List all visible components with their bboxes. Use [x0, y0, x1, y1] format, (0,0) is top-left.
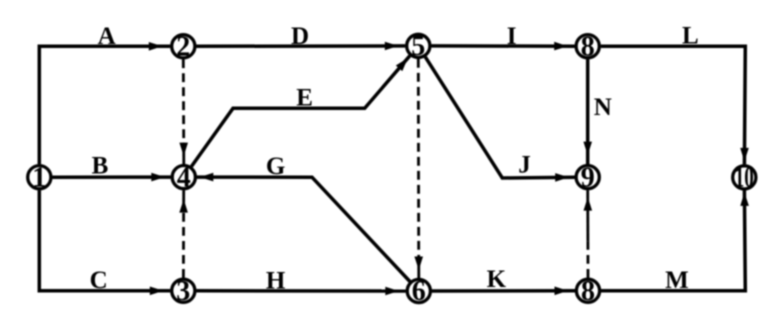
label E — [296, 85, 313, 112]
edge C (1 to 3) — [39, 190, 170, 295]
svg-text:8: 8 — [581, 276, 595, 307]
label L — [682, 22, 699, 49]
node 9 — [576, 162, 599, 193]
svg-text:B: B — [92, 152, 109, 179]
node 8 bottom — [576, 276, 599, 307]
svg-text:4: 4 — [177, 162, 191, 193]
node 6 — [407, 276, 430, 307]
node 4 — [172, 162, 195, 193]
svg-text:2: 2 — [176, 32, 190, 63]
label H — [266, 267, 286, 294]
dummy dashed edge 8 bottom to 9 — [584, 190, 593, 278]
svg-text:I: I — [507, 23, 517, 50]
svg-text:10: 10 — [735, 163, 754, 194]
svg-text:5: 5 — [411, 31, 425, 62]
edge I (5 to 8 top) — [431, 42, 574, 51]
label J — [518, 152, 531, 179]
svg-text:C: C — [90, 267, 108, 294]
edge J (5 to 9) — [425, 57, 574, 182]
dummy dashed edge 2 to 4 — [179, 59, 188, 164]
svg-text:G: G — [266, 153, 285, 180]
label K — [487, 266, 507, 293]
svg-text:3: 3 — [176, 276, 190, 307]
edge H (3 to 6) — [196, 287, 405, 296]
svg-text:J: J — [518, 152, 531, 179]
label G — [266, 153, 285, 180]
edge K (6 to 8 bottom) — [432, 287, 575, 296]
edge A (1 to 2) — [39, 42, 170, 164]
edge L (8 top to 10) — [601, 46, 749, 164]
edge N (8 top to 9) — [583, 59, 592, 164]
svg-text:H: H — [266, 267, 286, 294]
node 8 top — [576, 31, 599, 62]
svg-text:6: 6 — [412, 276, 426, 307]
edge G (6 to 4) — [197, 173, 410, 282]
svg-text:L: L — [682, 22, 699, 49]
svg-text:D: D — [291, 23, 309, 50]
svg-text:A: A — [98, 23, 116, 50]
label A — [98, 23, 116, 50]
dummy dashed edge 3 to 4 — [179, 190, 188, 278]
label I — [507, 23, 517, 50]
svg-text:K: K — [487, 266, 507, 293]
label D — [291, 23, 309, 50]
svg-text:1: 1 — [32, 162, 46, 193]
edge E (4 to 5) — [191, 56, 409, 167]
svg-text:8: 8 — [581, 31, 595, 62]
dummy dashed edge 5 to 6 — [414, 59, 423, 278]
node 2 — [172, 32, 195, 63]
label B — [92, 152, 109, 179]
node 3 — [172, 276, 195, 307]
svg-text:N: N — [594, 94, 612, 121]
svg-text:M: M — [665, 267, 689, 294]
label C — [90, 267, 108, 294]
label N — [594, 94, 612, 121]
edge B (1 to 4) — [52, 173, 171, 182]
node 10 — [733, 163, 756, 194]
edge D (2 to 5) — [196, 42, 405, 51]
svg-text:9: 9 — [581, 162, 595, 193]
label M — [665, 267, 689, 294]
node 1 — [28, 162, 51, 193]
svg-text:E: E — [296, 85, 313, 112]
edge M (8 bottom to 10) — [601, 190, 749, 290]
node 5 — [407, 31, 430, 62]
